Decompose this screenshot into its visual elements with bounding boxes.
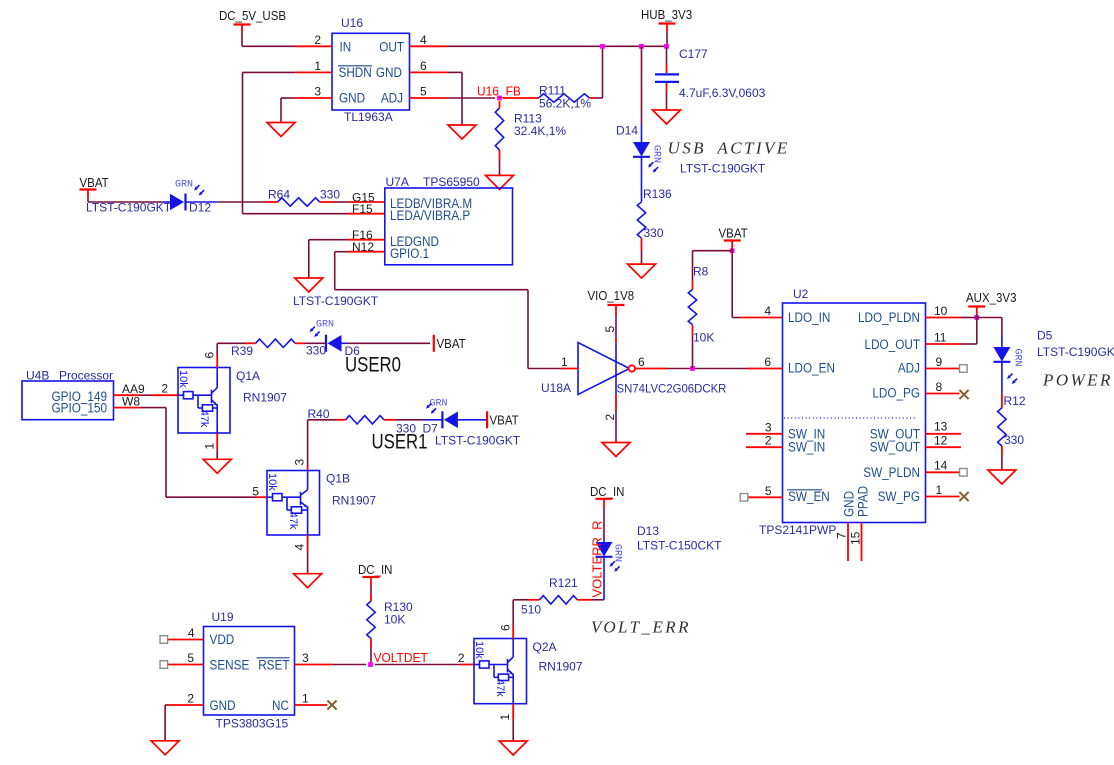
svg-text:3: 3	[302, 651, 309, 665]
svg-text:F15: F15	[352, 202, 373, 216]
svg-text:TPS2141PWP: TPS2141PWP	[759, 523, 836, 537]
svg-text:HUB_3V3: HUB_3V3	[641, 8, 692, 23]
svg-text:330: 330	[320, 188, 340, 202]
svg-text:32.4K,1%: 32.4K,1%	[514, 124, 566, 138]
pin N12 U7A	[348, 240, 385, 254]
pin 12 U2	[926, 434, 962, 448]
svg-text:VOLTDET: VOLTDET	[374, 651, 429, 666]
svg-text:5: 5	[187, 651, 194, 665]
LED D7	[395, 399, 487, 436]
label VOLT_ERR	[591, 618, 691, 637]
svg-text:AUX_3V3: AUX_3V3	[966, 291, 1017, 306]
pin 1 U2	[926, 483, 969, 501]
svg-text:4: 4	[420, 33, 427, 47]
pin 1 U16	[295, 59, 332, 73]
svg-text:R8: R8	[693, 265, 709, 279]
svg-text:14: 14	[934, 458, 948, 472]
label POWER	[1037, 345, 1114, 390]
ground	[653, 110, 681, 124]
svg-text:47k: 47k	[287, 512, 299, 530]
svg-text:R39: R39	[231, 344, 253, 358]
svg-text:1: 1	[302, 692, 309, 706]
wire	[305, 342, 326, 344]
svg-text:TL1963A: TL1963A	[344, 110, 393, 124]
wire	[641, 46, 643, 124]
LED D13	[596, 524, 723, 600]
LED D14	[616, 124, 662, 202]
svg-text:GPIO_150: GPIO_150	[52, 400, 107, 416]
power symbol VIO_1V8	[588, 289, 635, 313]
svg-text:4: 4	[293, 544, 307, 551]
node junction	[730, 248, 735, 253]
svg-text:2: 2	[314, 33, 321, 47]
pin 4 U16	[410, 33, 448, 47]
inverter U18A	[541, 343, 726, 396]
svg-text:LDO_PG: LDO_PG	[872, 385, 920, 401]
svg-text:12: 12	[934, 434, 948, 448]
node junction	[974, 315, 979, 320]
svg-text:GRN: GRN	[430, 399, 448, 410]
pin 6 U2	[747, 355, 783, 369]
pin AA9 U4B	[114, 382, 146, 396]
svg-text:LTST-C190GKT: LTST-C190GKT	[1037, 345, 1114, 359]
svg-text:9: 9	[936, 355, 943, 369]
pin 15 U2	[849, 523, 863, 562]
power symbol DC_IN	[358, 563, 392, 585]
svg-text:VOLTERR_R: VOLTERR_R	[590, 520, 605, 597]
pin 2 Q1A	[151, 382, 178, 396]
ground	[448, 125, 476, 139]
wire	[1001, 455, 1003, 470]
svg-text:D14: D14	[616, 124, 638, 138]
svg-text:LEDA/VIBRA.P: LEDA/VIBRA.P	[390, 207, 470, 223]
svg-text:510: 510	[521, 603, 541, 617]
wire	[370, 585, 372, 594]
wire	[334, 201, 348, 203]
svg-text:GPIO.1: GPIO.1	[390, 245, 429, 261]
pin 7 U2	[835, 523, 849, 562]
label USB ACTIVE	[668, 139, 790, 176]
power symbol DC_5V_USB	[219, 9, 286, 33]
svg-text:RN1907: RN1907	[332, 494, 376, 508]
svg-text:6: 6	[203, 352, 217, 359]
svg-text:RN1907: RN1907	[243, 391, 287, 405]
power symbol VBAT	[719, 226, 749, 248]
node junction	[600, 44, 605, 49]
pin 1 U19	[295, 692, 337, 710]
pin G15 U7A	[348, 190, 385, 204]
svg-text:U16: U16	[341, 16, 363, 30]
pin 8 U2	[926, 380, 969, 399]
power symbol DC_IN	[590, 485, 624, 507]
pin F16 U7A	[348, 228, 385, 242]
ground	[203, 459, 231, 473]
wire OUT net	[447, 45, 667, 47]
svg-text:USB ACTIVE: USB ACTIVE	[668, 139, 790, 158]
node junction	[664, 44, 669, 49]
capacitor C177	[655, 46, 766, 110]
resistor R39	[231, 339, 326, 358]
svg-text:POWER: POWER	[1042, 371, 1113, 390]
svg-text:GRN: GRN	[651, 145, 662, 163]
svg-text:47k: 47k	[198, 410, 210, 428]
svg-text:15: 15	[849, 531, 863, 545]
svg-text:Processor: Processor	[59, 369, 113, 383]
svg-text:USER0: USER0	[345, 354, 401, 377]
wire	[693, 249, 733, 318]
pin 6 Q1A	[203, 352, 218, 368]
label USER1	[372, 431, 521, 454]
pin 10 U2	[926, 304, 962, 318]
svg-text:U18A: U18A	[541, 381, 571, 395]
resistor R40	[335, 416, 416, 436]
power symbol VBAT	[80, 176, 110, 198]
wire	[347, 342, 430, 344]
svg-text:SENSE: SENSE	[210, 657, 250, 673]
wire U16 pin6 to gnd	[447, 72, 462, 125]
power symbol HUB_3V3	[641, 8, 692, 32]
svg-text:DC_IN: DC_IN	[590, 485, 624, 500]
svg-text:LDO_EN: LDO_EN	[788, 360, 835, 376]
svg-text:VBAT: VBAT	[80, 176, 110, 191]
pin 5 Q1B	[252, 485, 267, 499]
wire	[88, 198, 163, 203]
svg-text:1: 1	[561, 355, 568, 369]
pin 3 Q1B	[293, 459, 308, 471]
resistor R111	[503, 84, 594, 111]
svg-text:LDO_PLDN: LDO_PLDN	[858, 309, 920, 325]
wire	[666, 32, 668, 47]
resistor R136	[637, 187, 672, 250]
svg-text:3: 3	[293, 459, 307, 466]
svg-text:USER1: USER1	[372, 431, 428, 454]
svg-text:SW_IN: SW_IN	[788, 439, 825, 455]
svg-text:W8: W8	[122, 394, 140, 408]
wire	[499, 159, 501, 175]
svg-text:R40: R40	[308, 407, 330, 421]
svg-text:3: 3	[765, 420, 772, 434]
regulator U16	[332, 16, 410, 124]
IC U4B Processor	[22, 369, 114, 420]
svg-text:VBAT: VBAT	[437, 337, 467, 352]
pin 2 U19	[168, 692, 204, 706]
pin 5 U19	[160, 651, 204, 668]
wire F16 to gnd	[309, 240, 348, 278]
svg-text:R121: R121	[549, 576, 578, 590]
wire	[692, 335, 694, 369]
svg-text:R12: R12	[1004, 394, 1026, 408]
pin 14 U2	[926, 458, 968, 476]
pin 3 U16	[295, 85, 332, 99]
ground	[486, 175, 514, 189]
svg-text:10K: 10K	[384, 613, 405, 627]
ground	[628, 264, 656, 278]
wire	[512, 719, 514, 741]
wire LDO_EN net	[667, 368, 747, 370]
wire W8 net	[141, 408, 255, 498]
pin 11 U2	[926, 331, 962, 345]
svg-text:8: 8	[936, 380, 943, 394]
svg-text:56.2K,1%: 56.2K,1%	[539, 97, 591, 111]
IC U19	[204, 610, 295, 731]
svg-text:4.7uF,6.3V,0603: 4.7uF,6.3V,0603	[679, 86, 766, 100]
svg-text:R136: R136	[643, 187, 672, 201]
svg-text:5: 5	[603, 326, 617, 333]
pin 1 Q1A	[203, 433, 218, 451]
svg-text:6: 6	[638, 355, 645, 369]
svg-text:4: 4	[764, 304, 771, 318]
svg-text:330: 330	[306, 344, 326, 358]
svg-text:GRN: GRN	[175, 180, 193, 191]
ground	[295, 278, 323, 292]
wire	[165, 705, 167, 741]
svg-text:4: 4	[188, 626, 195, 640]
svg-text:VIO_1V8: VIO_1V8	[588, 289, 635, 304]
svg-text:GRN: GRN	[316, 320, 334, 331]
wire	[141, 394, 151, 396]
svg-text:7: 7	[835, 532, 849, 539]
svg-text:LDO_IN: LDO_IN	[788, 309, 830, 325]
svg-text:2: 2	[458, 651, 465, 665]
svg-text:SW_EN: SW_EN	[788, 488, 830, 504]
svg-text:TPS3803G15: TPS3803G15	[216, 717, 289, 731]
resistor R64	[265, 188, 341, 207]
wire	[307, 551, 309, 573]
pin 4 U2	[740, 304, 783, 318]
svg-text:VDD: VDD	[210, 631, 235, 647]
pin 6 Q2A	[499, 624, 514, 639]
pin 4 U19	[160, 626, 204, 643]
power symbol VBAT	[434, 335, 466, 352]
svg-text:IN: IN	[340, 39, 352, 55]
pin 6 U16	[410, 59, 448, 73]
svg-text:U7A: U7A	[386, 175, 409, 189]
svg-text:GRN: GRN	[1012, 349, 1023, 367]
wire	[594, 46, 603, 98]
svg-text:5: 5	[765, 484, 772, 498]
wire U16 gnd	[281, 98, 295, 123]
wire	[242, 33, 295, 47]
wire R40 net	[308, 407, 336, 466]
svg-text:10k: 10k	[266, 473, 278, 491]
pin W8 U4B	[114, 394, 142, 408]
svg-text:Q2A: Q2A	[533, 640, 557, 654]
svg-text:10k: 10k	[177, 370, 189, 388]
svg-text:10K: 10K	[693, 331, 714, 345]
svg-text:PPAD: PPAD	[855, 486, 871, 517]
wire VOLTDET net	[332, 664, 366, 666]
svg-text:D12: D12	[189, 201, 211, 215]
wire LDO_OUT to AUX	[961, 318, 977, 345]
svg-text:6: 6	[499, 624, 513, 631]
svg-text:VBAT: VBAT	[490, 413, 520, 428]
pin 5 U16	[410, 85, 448, 99]
pin 3 U2	[746, 420, 783, 434]
svg-text:N12: N12	[352, 240, 374, 254]
svg-text:SW_PLDN: SW_PLDN	[863, 464, 920, 480]
pin 2 U18A	[603, 394, 617, 420]
svg-text:DC_5V_USB: DC_5V_USB	[219, 9, 286, 24]
pin 2 U16	[295, 33, 332, 47]
svg-text:DC_IN: DC_IN	[358, 563, 392, 578]
ground	[602, 443, 630, 457]
svg-text:5: 5	[420, 85, 427, 99]
svg-text:LTST-C190GKT: LTST-C190GKT	[435, 434, 521, 448]
svg-text:ADJ: ADJ	[381, 90, 403, 106]
node VOLTDET	[368, 651, 428, 667]
svg-text:SHDN: SHDN	[339, 64, 372, 80]
svg-text:1: 1	[936, 483, 943, 497]
svg-text:1: 1	[203, 443, 217, 450]
wire	[216, 451, 218, 460]
pin 1 Q2A	[498, 704, 513, 721]
svg-text:D5: D5	[1037, 329, 1053, 343]
ground	[267, 123, 295, 137]
wire R39 net	[217, 343, 245, 356]
svg-text:Q1B: Q1B	[326, 472, 350, 486]
svg-text:5: 5	[252, 485, 259, 499]
svg-text:GRN: GRN	[612, 544, 623, 562]
ground	[151, 741, 179, 755]
svg-text:LTST-C150CKT: LTST-C150CKT	[637, 539, 722, 553]
svg-text:LTST-C190GKT: LTST-C190GKT	[293, 294, 379, 308]
svg-text:2: 2	[603, 414, 617, 421]
resistor R130	[367, 594, 413, 648]
pin 3 U19	[295, 651, 333, 665]
svg-text:LTST-C190GKT: LTST-C190GKT	[680, 162, 766, 176]
pin 5 U18A	[603, 313, 617, 343]
pin 2 Q2A	[458, 651, 474, 665]
svg-text:Q1A: Q1A	[236, 369, 260, 383]
svg-text:47k: 47k	[494, 679, 506, 697]
node junction	[639, 44, 644, 49]
transistor Q1A	[177, 368, 287, 434]
pin 6 U18A	[635, 355, 667, 369]
svg-text:LTST-C190GKT: LTST-C190GKT	[86, 201, 172, 215]
resistor R113	[495, 101, 566, 159]
svg-text:U16_FB: U16_FB	[477, 84, 521, 99]
svg-text:6: 6	[764, 355, 771, 369]
pin 13 U2	[926, 419, 962, 434]
wire	[370, 648, 372, 662]
resistor R121	[521, 576, 592, 617]
label VOLTERR_R	[590, 520, 605, 597]
svg-text:1: 1	[314, 59, 321, 73]
svg-text:330: 330	[644, 226, 664, 240]
IC U7A	[385, 175, 513, 265]
svg-text:SN74LVC2G06DCKR: SN74LVC2G06DCKR	[617, 382, 727, 395]
wire	[732, 317, 740, 319]
LED D5	[993, 329, 1052, 394]
pin 5 U2	[740, 484, 782, 501]
IC U2	[759, 287, 926, 537]
svg-text:D13: D13	[637, 524, 659, 538]
svg-text:OUT: OUT	[379, 39, 404, 55]
wire	[592, 599, 604, 601]
svg-text:VOLT_ERR: VOLT_ERR	[591, 618, 691, 637]
resistor R8	[688, 265, 714, 345]
svg-text:GND: GND	[376, 64, 402, 80]
svg-text:2: 2	[187, 692, 194, 706]
svg-text:C177: C177	[679, 47, 708, 61]
svg-text:RSET: RSET	[258, 657, 289, 673]
svg-text:LDO_OUT: LDO_OUT	[865, 336, 921, 352]
wire	[375, 664, 460, 666]
svg-text:NC: NC	[272, 697, 289, 713]
ground	[988, 470, 1016, 484]
pin 2 U2	[746, 434, 783, 448]
svg-text:TPS65950: TPS65950	[423, 175, 480, 189]
svg-text:11: 11	[934, 331, 947, 345]
label USER0	[345, 354, 401, 377]
wire	[961, 315, 1002, 336]
power symbol AUX_3V3	[966, 291, 1017, 315]
wire	[615, 410, 617, 443]
ground	[294, 574, 322, 588]
pin F15 U7A	[348, 202, 385, 216]
svg-text:6: 6	[420, 59, 427, 73]
svg-text:1: 1	[498, 714, 512, 721]
resistor R12	[998, 394, 1026, 455]
svg-text:2: 2	[161, 382, 168, 396]
svg-text:SW_PG: SW_PG	[878, 488, 920, 504]
wire SHDN net	[243, 72, 349, 213]
node U16_FB	[477, 84, 521, 100]
LED D6	[310, 320, 361, 359]
pin 1 U18A	[561, 355, 578, 369]
pin 4 Q1B	[293, 535, 308, 551]
wire	[641, 250, 643, 264]
svg-text:U19: U19	[212, 610, 234, 624]
svg-text:VBAT: VBAT	[719, 226, 749, 241]
svg-text:10: 10	[934, 304, 948, 318]
LED D12	[86, 180, 217, 215]
svg-text:13: 13	[934, 419, 948, 433]
svg-text:GND: GND	[210, 697, 236, 713]
svg-text:330: 330	[1004, 433, 1024, 447]
wire	[513, 600, 528, 626]
node junction	[690, 366, 695, 371]
svg-text:R64: R64	[268, 188, 290, 202]
svg-text:R111: R111	[539, 84, 566, 98]
wire	[603, 507, 605, 535]
svg-text:SW_OUT: SW_OUT	[870, 439, 920, 455]
svg-text:U2: U2	[793, 287, 809, 301]
svg-text:ADJ: ADJ	[898, 360, 920, 376]
svg-text:10k: 10k	[473, 641, 485, 659]
svg-text:U4B: U4B	[26, 369, 49, 383]
pin 9 U2	[926, 355, 968, 372]
wire	[217, 201, 265, 203]
svg-text:3: 3	[314, 85, 321, 99]
ground	[499, 741, 527, 755]
svg-text:RN1907: RN1907	[539, 660, 583, 674]
transistor Q2A	[473, 639, 583, 704]
power symbol VBAT	[487, 411, 519, 428]
svg-text:2: 2	[765, 434, 772, 448]
wire N12 net	[335, 252, 561, 369]
transistor Q1B	[266, 471, 376, 536]
wire ADJ net	[447, 97, 495, 99]
svg-text:GND: GND	[339, 90, 365, 106]
label LTST-C190GKT	[293, 294, 379, 308]
